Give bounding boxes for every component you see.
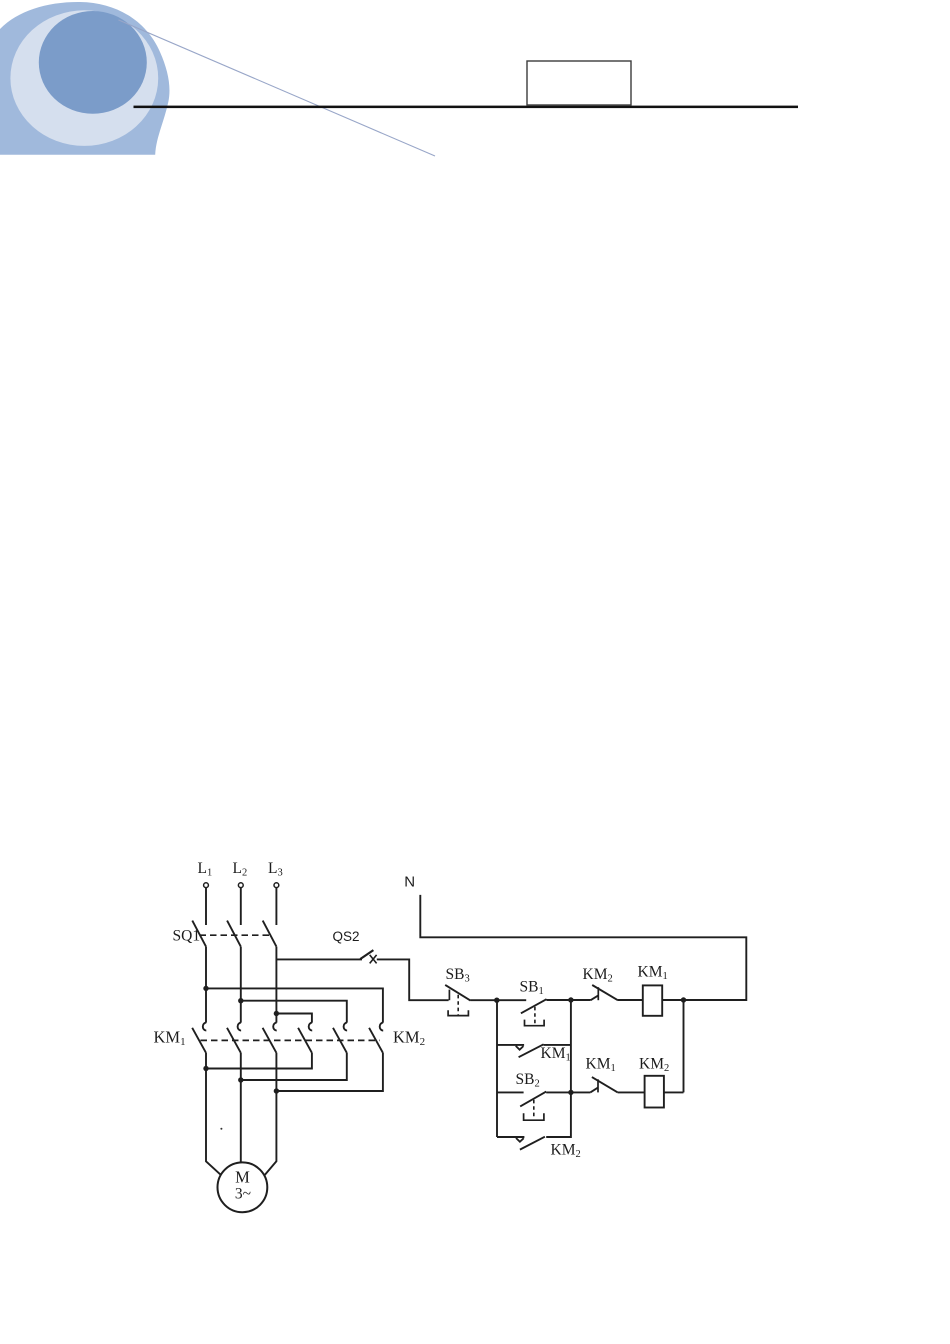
button SB1 blade bbox=[521, 999, 547, 1013]
svg-text:KM2: KM2 bbox=[393, 1028, 425, 1049]
button SB1 plunger dashed bbox=[534, 1007, 536, 1024]
node L3 branch junction bbox=[274, 1011, 279, 1016]
node L1 branch junction bbox=[203, 986, 208, 991]
wire phase A vertical bbox=[205, 947, 207, 1023]
wire motor lead U bbox=[206, 1053, 221, 1175]
switch SQ1 pole 1 blade bbox=[192, 921, 206, 947]
button SB2 cap bbox=[524, 1113, 544, 1120]
wire KM2 NC to coil KM1 bbox=[618, 999, 643, 1001]
contactor KM2 pole 5 blade bbox=[333, 1028, 347, 1053]
svg-text:M: M bbox=[235, 1168, 250, 1187]
node phase B crossover junction bbox=[238, 1077, 243, 1082]
contactor KM1 pole 3 blade bbox=[263, 1028, 277, 1053]
wire coil KM2 to vertical C bbox=[664, 1091, 684, 1093]
switch SQ1 pole 2 blade bbox=[227, 921, 241, 947]
wire L2 drop bbox=[240, 888, 242, 925]
contactor KM1 pole 1 fixed contact bbox=[203, 1023, 206, 1031]
motor M circle bbox=[218, 1162, 268, 1212]
header box bbox=[527, 61, 631, 105]
coil KM1 bbox=[643, 985, 662, 1015]
button SB3 plunger dashed bbox=[457, 995, 459, 1015]
contactor KM2 pole 6 fixed contact bbox=[380, 1023, 383, 1031]
svg-text:SB3: SB3 bbox=[446, 966, 470, 985]
wire KM1 aux branch right bbox=[544, 1044, 571, 1046]
wire vertical C down to KM2 coil rung bbox=[683, 1000, 685, 1092]
contact KM2 NC blade bbox=[592, 985, 618, 1000]
svg-text:QS2: QS2 bbox=[333, 929, 360, 944]
svg-text:L2: L2 bbox=[233, 860, 248, 879]
svg-text:L3: L3 bbox=[268, 860, 283, 879]
wire left ladder vertical bbox=[496, 1000, 498, 1137]
terminal L1 bbox=[204, 883, 209, 888]
KM1 KM2 linkage dashed bbox=[201, 1039, 380, 1041]
svg-text:SQ1: SQ1 bbox=[173, 927, 201, 944]
wire L1 drop bbox=[205, 888, 207, 925]
svg-text:KM1: KM1 bbox=[154, 1028, 186, 1049]
wire KM2 pole 5 out to phase B bbox=[241, 1053, 347, 1080]
wire branch L3 to KM2 pole 4 bbox=[276, 1014, 312, 1023]
stray ink speck bbox=[220, 1128, 222, 1130]
node phase C crossover junction bbox=[274, 1088, 279, 1093]
contact KM1 NC foot bbox=[590, 1088, 598, 1093]
coil KM2 bbox=[645, 1076, 664, 1108]
header rule bbox=[134, 106, 799, 109]
svg-text:3~: 3~ bbox=[235, 1186, 251, 1203]
button SB1 cap bbox=[525, 1020, 545, 1026]
node B junction bbox=[568, 997, 573, 1002]
svg-text:SB2: SB2 bbox=[516, 1071, 540, 1090]
button SB3 cap bbox=[448, 1010, 468, 1015]
contact KM2 NC tick bbox=[597, 987, 599, 1000]
node C junction bbox=[681, 997, 686, 1002]
contact KM1 NC tick bbox=[597, 1079, 599, 1092]
svg-text:KM2: KM2 bbox=[583, 966, 613, 985]
wire L3 to QS2 bbox=[276, 958, 362, 960]
contact KM1 NC blade bbox=[592, 1077, 618, 1092]
svg-text:KM1: KM1 bbox=[586, 1056, 616, 1075]
contactor KM1 pole 2 blade bbox=[227, 1028, 241, 1053]
terminal L2 bbox=[238, 883, 243, 888]
wire SB2 rung left bbox=[497, 1091, 524, 1093]
wire seal-in vertical B to D bbox=[570, 1000, 572, 1092]
contact KM1 aux fixed hook bbox=[516, 1046, 524, 1050]
button SB2 plunger dashed bbox=[533, 1100, 535, 1118]
button SB3 blade bbox=[445, 985, 470, 1001]
wire SB1 to KM2 NC bbox=[547, 999, 591, 1001]
wire coil KM1 to node C bbox=[662, 999, 683, 1001]
node A junction bbox=[494, 998, 499, 1003]
contactor KM2 pole 4 blade bbox=[298, 1028, 312, 1053]
wire branch L2 to KM2 pole 5 bbox=[241, 1001, 347, 1023]
contactor KM1 pole 3 fixed contact bbox=[273, 1023, 276, 1031]
switch SQ1 pole 3 blade bbox=[263, 921, 277, 947]
wire L3 drop bbox=[275, 888, 277, 925]
node D junction bbox=[568, 1090, 573, 1095]
svg-text:L1: L1 bbox=[198, 860, 213, 879]
contactor KM1 pole 1 blade bbox=[192, 1028, 206, 1053]
svg-text:KM1: KM1 bbox=[638, 964, 668, 983]
wire KM1 NC to coil KM2 bbox=[618, 1091, 645, 1093]
decorative diagonal line bbox=[118, 20, 435, 156]
wire KM1 aux branch left bbox=[497, 1044, 524, 1046]
switch QS2 blade bbox=[360, 950, 373, 959]
QS2 x-mark bbox=[370, 955, 377, 964]
wire N drop and return rail bbox=[420, 895, 746, 1000]
contactor KM1 pole 2 fixed contact bbox=[238, 1023, 241, 1031]
wire SB2 to KM1 NC bbox=[546, 1091, 590, 1093]
SQ1 mechanical linkage dashed bbox=[200, 934, 272, 936]
svg-text:KM1: KM1 bbox=[541, 1045, 571, 1064]
logo middle light circle bbox=[10, 10, 158, 146]
svg-text:KM2: KM2 bbox=[639, 1056, 669, 1075]
contact KM1 aux blade bbox=[519, 1044, 544, 1057]
button SB2 blade bbox=[520, 1092, 546, 1107]
contactor KM2 pole 6 blade bbox=[369, 1028, 383, 1053]
terminal L3 bbox=[274, 883, 279, 888]
contactor KM2 pole 4 fixed contact bbox=[309, 1023, 312, 1031]
logo outer blob bbox=[0, 2, 169, 155]
button SB3 fixed contact tick bbox=[448, 990, 450, 1001]
contact KM2 NC foot bbox=[591, 995, 599, 1000]
node L2 branch junction bbox=[238, 998, 243, 1003]
svg-text:SB1: SB1 bbox=[520, 979, 544, 998]
contactor KM2 pole 5 fixed contact bbox=[344, 1023, 347, 1031]
wire KM2 pole 6 out to phase C bbox=[276, 1053, 383, 1091]
wire phase B vertical bbox=[240, 947, 242, 1023]
svg-text:KM2: KM2 bbox=[551, 1142, 581, 1161]
logo top circle bbox=[39, 11, 147, 114]
node phase A crossover junction bbox=[203, 1066, 208, 1071]
wire SB3 to SB1 bbox=[471, 999, 527, 1001]
wire QS2 to SB3 bbox=[377, 959, 449, 1000]
wire phase C vertical bbox=[275, 947, 277, 1023]
svg-text:N: N bbox=[404, 873, 415, 890]
wire motor lead W bbox=[264, 1053, 276, 1176]
contact KM2 aux blade bbox=[520, 1137, 545, 1150]
wire KM2 aux branch left bbox=[497, 1136, 524, 1138]
wire KM2 pole 4 out to phase A bbox=[206, 1053, 312, 1069]
wire motor lead V bbox=[240, 1053, 242, 1163]
wire KM2 aux branch right up to D bbox=[546, 1092, 571, 1137]
contact KM2 aux fixed hook bbox=[516, 1138, 524, 1142]
wire branch L1 to KM2 pole 6 bbox=[206, 988, 383, 1022]
